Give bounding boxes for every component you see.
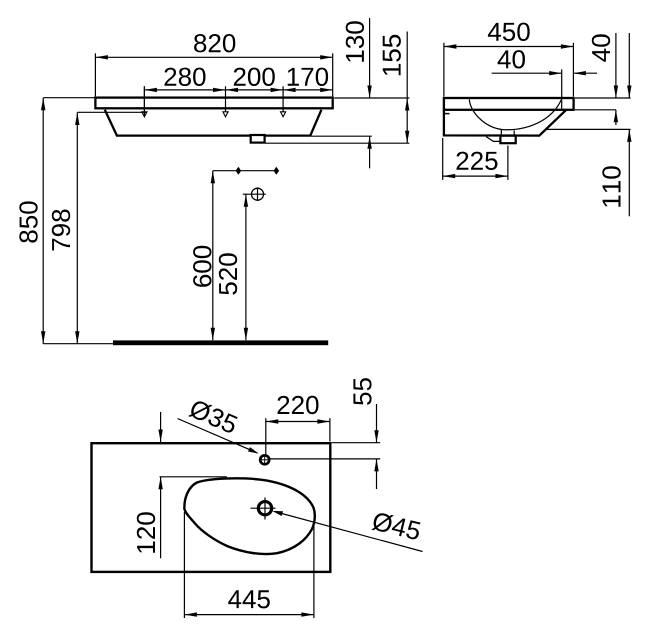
dim 55: label: [353, 378, 371, 405]
dim 445: left extension line: [183, 512, 185, 618]
dim 798: top extension line: [77, 111, 146, 113]
dim 820: right extension line: [332, 53, 334, 96]
dim 155: label: [383, 35, 401, 75]
dim 130: upper dimension line: [367, 18, 371, 98]
front view: washbasin slab outline: [95, 98, 332, 109]
dim 120: label: [137, 512, 155, 552]
dim 120: basin-edge extension line: [160, 476, 227, 478]
fixing hole marker right: [281, 112, 286, 117]
dim 120: lower dimension line: [158, 477, 162, 559]
dim 820: left extension line: [94, 53, 96, 96]
dim 280: label: [165, 68, 206, 86]
dim 40 (slab thickness): bottom extension line: [575, 109, 616, 111]
dim 450: dimension line: [444, 44, 574, 48]
dim 170: dimension line: [283, 88, 333, 92]
dim 130: basin-bottom extension line: [311, 135, 372, 137]
dim 170: label: [288, 68, 328, 86]
front view: faucet hole symbol (circle with crosshair): [243, 187, 266, 201]
dim 110: basin edge extension line: [546, 128, 631, 130]
dim 225: label: [457, 152, 498, 170]
front view: basin body outline: [105, 110, 322, 136]
dim 225: right extension line: [507, 146, 509, 180]
dim 798: dimension line: [75, 113, 79, 344]
dim 520: dimension line: [244, 194, 248, 340]
dim 40 (tap hole to rear): label: [498, 50, 525, 68]
dim 225: left extension line: [442, 138, 444, 180]
front view: drain stub: [251, 135, 265, 143]
dim 225: dimension line: [443, 174, 508, 178]
plan view: drain hole: [251, 498, 276, 520]
label O45: leader line: [272, 511, 422, 552]
front view: floor extension line: [43, 343, 113, 345]
dim 600: reference line with point markers: [213, 167, 279, 175]
dim 40 (slab thickness): lower dimension line: [614, 110, 618, 125]
fixing hole marker left: [142, 86, 147, 117]
dim 55: hole centre extension line: [270, 458, 380, 460]
dim 450: label: [488, 23, 530, 41]
dim 110: lower dimension line: [627, 129, 631, 216]
side view: basin interior curve: [469, 99, 561, 129]
dim 798: label: [52, 210, 70, 251]
dim 445: dimension line: [184, 612, 314, 616]
dim 110: label: [602, 166, 620, 206]
plan view: tap hole: [260, 454, 269, 465]
side view: drain hole walls: [501, 130, 514, 135]
dim 200: dimension line: [226, 88, 284, 92]
dim 445: label: [228, 590, 270, 608]
side view: sump outline: [486, 137, 500, 142]
side view: slab outline: [444, 98, 574, 110]
dim 280: dimension line: [144, 88, 225, 92]
dim 55: lower dimension line: [374, 459, 378, 489]
dim 600: label: [193, 246, 211, 287]
plan view: worktop outline: [92, 443, 331, 572]
front view: floor line (thick): [113, 340, 328, 345]
dim 450: left extension line: [443, 43, 445, 97]
dim chain: extension line at x=144.4: [143, 86, 145, 111]
dim 220: label: [278, 396, 319, 414]
dim 450: right extension line: [572, 43, 574, 97]
dim 40 (tap hole to rear): leader line: [492, 71, 562, 75]
dim 850: dimension line: [41, 98, 45, 344]
dim 110: upper dimension line: [627, 33, 631, 98]
dim 40 (slab thickness): top extension line: [575, 97, 631, 99]
side view: basin body outline: [444, 110, 567, 136]
dim 130: label: [346, 21, 364, 61]
dim 130: lower dimension line: [367, 136, 371, 168]
dim 220: left extension line: [265, 418, 267, 454]
label O45: text: [371, 511, 421, 541]
dim 600: dimension line: [211, 171, 215, 341]
dim 155: dimension line: [405, 32, 409, 144]
dim 445: right extension line: [313, 524, 315, 618]
dim 200: label: [234, 68, 275, 86]
dim 850: label: [19, 201, 37, 242]
dim 40 (slab thickness): label: [592, 34, 610, 61]
dim 220: dimension line: [266, 419, 330, 423]
dim 40 (tap hole to rear): hole centre extension line: [561, 69, 563, 109]
dim 40 (tap hole to rear): right arrow: [573, 71, 597, 75]
side view: rear ledge tick: [444, 113, 449, 115]
dim 130: slab-top extension line: [334, 97, 409, 99]
dim chain: extension line at x=225.5: [225, 86, 227, 111]
label O35: leader line: [178, 419, 259, 454]
dim 220: right extension line: [329, 418, 331, 441]
dim 520: label: [219, 253, 237, 294]
fixing hole marker middle: [223, 112, 228, 117]
dim 820: dimension line: [95, 55, 332, 59]
dim 120: upper dimension line: [158, 412, 162, 442]
dim 155: drain-bottom extension line: [265, 142, 409, 144]
label O35: text: [188, 398, 239, 434]
dim 55: upper dimension line: [374, 404, 378, 443]
dim 850: top extension line: [43, 97, 95, 99]
side view: drain stub: [500, 136, 515, 144]
dim 820: label: [194, 34, 235, 52]
dim 40 (slab thickness): upper dimension line: [614, 33, 618, 98]
dim 55: top extension line: [332, 442, 381, 444]
dim chain: extension line at x=283.1: [282, 86, 284, 111]
plan view: basin bowl outline: [184, 478, 314, 554]
